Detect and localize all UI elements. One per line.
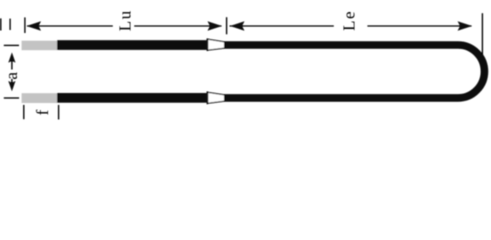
Le right arrowhead xyxy=(458,21,473,31)
Le left arrowhead xyxy=(230,21,245,31)
Lu right arrowhead xyxy=(208,21,223,31)
Le right extension line xyxy=(481,13,483,54)
svg-text:Le: Le xyxy=(340,10,359,31)
f left extension line xyxy=(23,105,25,119)
svg-text:f: f xyxy=(33,108,52,115)
terminal shank top (black) xyxy=(57,40,207,50)
a dimension top tick (top shank centerline) xyxy=(4,44,19,46)
aluminized terminal top (gray) xyxy=(22,41,58,51)
aluminized terminal bottom (gray) xyxy=(22,93,58,103)
Le dimension line xyxy=(230,25,334,27)
svg-text:Lu: Lu xyxy=(116,9,135,31)
welding cone top (white trapezoid) xyxy=(207,39,224,51)
terminal shank bottom (black) xyxy=(57,93,207,103)
second short tick xyxy=(9,19,11,30)
welding cone bottom (white trapezoid) xyxy=(207,92,224,104)
a dimension bottom tick (bottom shank centerline) xyxy=(4,97,19,99)
f right extension line xyxy=(58,105,60,120)
svg-text:a: a xyxy=(2,71,21,80)
middle extension line (Lu/Le boundary) xyxy=(226,17,228,34)
heating zone U (black) xyxy=(224,45,485,98)
tick at image left edge xyxy=(0,18,2,30)
a up arrowhead xyxy=(8,52,15,62)
Lu dimension line xyxy=(27,25,113,27)
a down arrowhead xyxy=(8,81,15,91)
Lu left arrowhead xyxy=(27,21,42,31)
Lu left extension line xyxy=(24,17,26,33)
